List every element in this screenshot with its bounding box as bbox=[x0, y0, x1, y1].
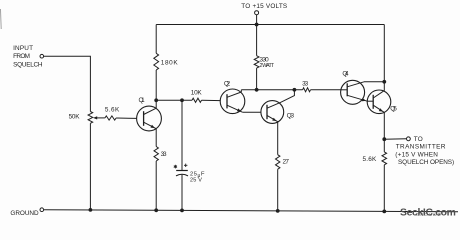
wire node B to capacitor bbox=[181, 100, 183, 170]
wire collector rail Q2 to 33 bbox=[241, 89, 302, 91]
wire 10K to Q2 base bbox=[202, 99, 221, 101]
wire 5.6K to ground bbox=[383, 165, 385, 212]
resistor 5.6K (output) bbox=[382, 152, 387, 165]
resistor 10K bbox=[192, 98, 202, 102]
wire Q3 emitter to 27 bbox=[277, 122, 279, 155]
wire input to 50K pot bbox=[44, 56, 91, 111]
node G output junction bbox=[382, 137, 386, 141]
node D junction (330 / collector rail) bbox=[255, 88, 259, 92]
resistor 27 bbox=[276, 155, 280, 170]
ground rail bbox=[44, 210, 458, 212]
svg-text:FROM: FROM bbox=[13, 53, 31, 60]
output terminal bbox=[407, 137, 411, 141]
svg-text:33: 33 bbox=[161, 151, 168, 158]
wire Q2 emitter to Q3 base bbox=[243, 111, 261, 113]
wire +15V terminal drop bbox=[256, 15, 258, 56]
node B junction (capacitor branch) bbox=[180, 98, 184, 102]
svg-text:10K: 10K bbox=[191, 89, 203, 96]
node A junction (Q1 collector / 180K / 10K) bbox=[154, 98, 158, 102]
svg-text:Q2: Q2 bbox=[224, 81, 231, 88]
resistor 5.6K (Q1 base) bbox=[105, 116, 116, 120]
wire top +15V rail bbox=[156, 24, 384, 26]
transistor Q2 bbox=[220, 89, 245, 114]
svg-text:GROUND: GROUND bbox=[10, 210, 39, 217]
svg-text:INPUT: INPUT bbox=[13, 45, 33, 52]
svg-text:TO: TO bbox=[414, 136, 424, 143]
wire 27 to ground bbox=[277, 169, 279, 211]
resistor 33 (Q1 emitter) bbox=[154, 147, 158, 162]
transistor Q3 bbox=[261, 101, 284, 124]
wire output to terminal bbox=[384, 138, 406, 140]
wire Q5 emitter to output node bbox=[383, 112, 385, 139]
resistor 33 (Q4 base) bbox=[303, 88, 311, 92]
+15V terminal bbox=[255, 11, 259, 15]
resistor 180K bbox=[154, 53, 159, 70]
capacitor C1 25uF 25V bbox=[176, 170, 188, 172]
transistor Q4 bbox=[341, 80, 365, 104]
svg-text:TO +15 VOLTS: TO +15 VOLTS bbox=[241, 3, 287, 10]
transistor Q1 bbox=[137, 106, 162, 131]
svg-text:5.6K: 5.6K bbox=[105, 107, 120, 114]
resistor 330 2WATT bbox=[254, 56, 259, 68]
svg-text:2 WATT: 2 WATT bbox=[260, 63, 275, 69]
pot wiper arrow bbox=[97, 117, 105, 119]
ground junction 5.6K bbox=[382, 210, 386, 214]
ground terminal bbox=[40, 208, 44, 212]
svg-text:25 V: 25 V bbox=[190, 178, 203, 184]
potentiometer R1 50K bbox=[88, 112, 93, 124]
svg-text:50K: 50K bbox=[69, 114, 81, 121]
svg-text:Q3: Q3 bbox=[287, 113, 295, 120]
scan artifact left edge bbox=[0, 9, 2, 29]
wire node A to 10K bbox=[156, 99, 192, 101]
svg-text:SQUELCH OPENS): SQUELCH OPENS) bbox=[398, 159, 455, 166]
svg-text:180K: 180K bbox=[161, 60, 179, 67]
wire 330 bottom to collector rail bbox=[256, 68, 258, 90]
svg-text:5.6K: 5.6K bbox=[363, 156, 378, 163]
svg-text:Q5: Q5 bbox=[390, 106, 397, 113]
svg-text:(+15 V WHEN: (+15 V WHEN bbox=[395, 151, 438, 158]
svg-text:SeckIC.com: SeckIC.com bbox=[400, 208, 457, 219]
node F junction (Q4/Q5 collectors) bbox=[382, 80, 386, 84]
svg-text:27: 27 bbox=[283, 158, 290, 165]
wire 180K bottom to node A bbox=[155, 70, 157, 100]
wire 33 to Q4 base bbox=[311, 89, 341, 91]
input terminal bbox=[40, 54, 44, 58]
node E junction (Q3 collector) bbox=[293, 88, 297, 92]
wire left vertical to 180K bbox=[155, 25, 157, 54]
ground junction capacitor bbox=[180, 209, 184, 213]
ground junction 27 bbox=[276, 209, 280, 213]
transistor Q5 bbox=[367, 90, 391, 114]
svg-text:33: 33 bbox=[302, 81, 309, 88]
ground junction 33 bbox=[154, 208, 158, 212]
wire 33 to ground bbox=[155, 161, 157, 210]
svg-text:Q1: Q1 bbox=[139, 97, 146, 104]
wire capacitor to ground bbox=[181, 175, 183, 211]
node C junction on +15V rail bbox=[255, 23, 259, 27]
wire 5.6K to Q1 base bbox=[116, 117, 137, 119]
wire output node to 5.6K bbox=[383, 139, 385, 152]
wire pot bottom to ground bbox=[89, 123, 91, 210]
svg-text:Q4: Q4 bbox=[342, 71, 349, 78]
svg-text:SQUELCH: SQUELCH bbox=[13, 62, 43, 69]
ground junction pot bbox=[89, 208, 93, 212]
svg-text:TRANSMITTER: TRANSMITTER bbox=[396, 144, 446, 151]
capacitor polarity marks bbox=[174, 165, 176, 169]
wire top rail right drop bbox=[383, 25, 385, 82]
